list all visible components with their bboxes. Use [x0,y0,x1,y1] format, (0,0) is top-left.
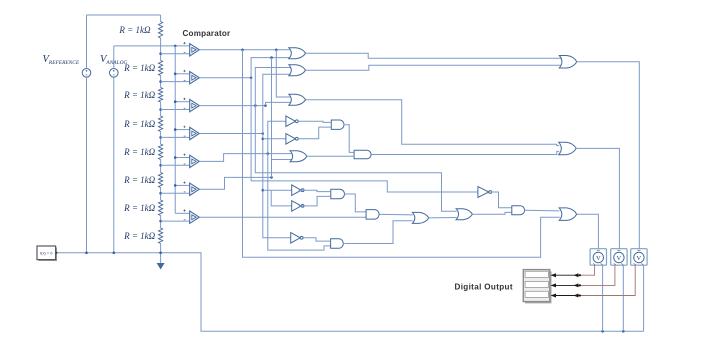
wire rail C [255,68,456,212]
node ladder tap [159,52,162,55]
wire [160,244,162,253]
wire Vplus rail [174,46,176,213]
or gate OR1 [289,48,306,59]
svg-text:R = 1kΩ: R = 1kΩ [123,175,156,185]
voltmeter XMM1 [590,249,606,266]
wire rail F [268,121,331,250]
and gate AND3 [331,189,345,199]
wire [161,53,190,55]
voltage source VANALOG [110,69,119,78]
wire arrow connector [552,274,581,276]
node [262,132,265,135]
node [174,128,177,131]
wire brown b1 [581,265,615,285]
wire [271,190,292,206]
node [622,330,625,333]
wire OR5 out [429,217,457,219]
block fx0 shadow [38,247,57,261]
wire comp1 out [199,49,289,51]
node [159,252,162,255]
or gate OR6 [456,209,472,220]
display cell 1 [525,271,548,277]
node [254,104,257,107]
inverter INV6 [478,187,489,198]
inverter INV4 [292,201,302,212]
wire [161,109,190,111]
wire [160,253,162,263]
and gate AND1 [331,120,344,129]
wire [175,184,190,186]
node [267,152,270,155]
wire rail B [251,58,478,192]
wire [113,46,115,69]
block fx0 [37,246,56,260]
node [275,49,278,52]
wire AND3 out [344,194,366,212]
node [270,176,273,179]
wire [299,121,332,122]
wire comp6 out [199,177,271,189]
wire brown b2 [581,265,595,275]
wire [643,265,645,331]
wire [307,155,354,157]
node [264,104,267,107]
wire [175,73,190,75]
wire [160,160,162,173]
op-amp comparator U2 [190,72,200,84]
wire ground bus [56,253,644,331]
wire [175,101,190,103]
or gate OR4 [290,151,307,162]
and gate AND6 [512,206,525,215]
svg-text:Digital Output: Digital Output [455,283,513,292]
wire [161,220,190,222]
svg-text:R = 1kΩ: R = 1kΩ [123,203,156,213]
wire [175,129,190,131]
or gate OR3 [289,94,306,105]
wire [345,125,354,153]
svg-text:VREFERENCE: VREFERENCE [43,54,80,66]
resistor R4 [159,116,163,132]
wire comp5 out [199,154,292,162]
resistor R8 [159,228,163,244]
resistor R3 [159,88,163,103]
svg-text:Comparator: Comparator [183,29,232,38]
wire rail H [276,50,290,97]
and gate AND4 [366,210,379,220]
wire rail E [266,102,291,105]
inverter INV5 [291,233,301,244]
wire [175,212,190,214]
node [85,252,88,255]
and gate AND5 [331,239,344,248]
resistor R1 [159,22,163,39]
svg-text:R = 1kΩ: R = 1kΩ [123,147,156,157]
resistor R7 [159,200,163,216]
wire rail G [271,58,273,178]
node [113,252,116,255]
wire OR8 out [576,148,619,248]
wire [160,76,162,88]
voltmeter XMM3 [631,249,647,266]
svg-text:V: V [637,255,642,262]
node [174,156,177,159]
op-amp comparator U5 [190,155,200,167]
node ladder tap [159,136,162,139]
wire [160,15,162,22]
node ladder tap [159,80,162,83]
node [174,73,177,76]
svg-text:R = 1kΩ: R = 1kΩ [118,25,151,35]
svg-text:R = 1kΩ: R = 1kΩ [123,231,156,241]
node [270,56,273,59]
resistor R6 [159,173,163,188]
block display shadow [525,271,552,303]
svg-text:V: V [596,255,601,262]
wire comp4 out [199,133,262,135]
wire [304,238,331,241]
wire [602,265,604,331]
node [262,138,265,141]
wire [263,189,292,191]
node [174,184,177,187]
display cell 2 [525,281,548,287]
svg-text:f(x) = 0: f(x) = 0 [40,251,53,256]
wire [161,81,190,83]
wire OR7 out [577,62,640,249]
wire AND2 out [371,151,559,154]
svg-text:R = 1kΩ: R = 1kΩ [123,63,156,73]
wire AND4 out [380,213,413,216]
svg-text:R = 1kΩ: R = 1kΩ [123,119,156,129]
inverter INV3 [292,185,302,196]
node [174,100,177,103]
voltmeter XMM2 [611,249,627,266]
wire AND5 out [344,221,413,244]
wire rail A [243,50,560,257]
or gate OR8 [559,142,577,155]
wire [114,45,190,47]
resistor R5 [159,144,163,160]
wire [86,77,88,253]
wire OR3 out [306,100,560,146]
svg-text:R = 1kΩ: R = 1kΩ [123,90,156,100]
node [250,76,253,79]
op-amp comparator U3 [190,99,200,111]
wire [272,159,293,161]
wire [87,14,161,16]
node ladder tap [159,108,162,111]
inverter INV1 [286,116,296,127]
wire [113,77,115,253]
wire comp3 out [199,105,265,107]
wire [299,127,332,139]
or gate OR9 [559,208,577,221]
wire brown b0 [581,265,635,295]
wire [299,190,331,191]
op-amp comparator U7 [190,211,200,223]
wire [160,188,162,201]
wire AND6 out [525,209,560,212]
wire [86,15,88,69]
wire [175,157,190,159]
node Vplus rail junction [174,45,177,48]
wire INV6 out [491,192,512,208]
display cell 3 [525,291,548,297]
wire [160,132,162,145]
wire [263,138,286,140]
wire arrow connector [552,284,581,286]
wire [160,216,162,229]
wire OR1 out [306,53,562,58]
wire [299,196,331,206]
wire [161,192,190,194]
wire [160,38,162,61]
or gate OR7 [559,56,577,69]
wire OR2 out [306,65,562,70]
node [241,49,244,52]
voltage source VREFERENCE [82,69,91,78]
node ladder tap [159,164,162,167]
or gate OR5 [412,212,428,223]
wire [622,265,624,331]
inverter INV2 [286,134,296,145]
node [601,330,604,333]
resistor R2 [159,61,163,76]
node ladder tap [159,192,162,195]
svg-text:V: V [617,255,622,262]
wire arrow connector [552,295,581,297]
wire OR9 out [577,214,599,249]
wire [161,164,190,166]
op-amp comparator U1 [190,44,200,56]
wire rail D [263,74,292,238]
op-amp comparator U4 [190,127,200,139]
op-amp comparator U6 [190,183,200,195]
block display frame [523,270,550,302]
node ladder tap [159,220,162,223]
wire [161,136,190,138]
and gate AND2 [354,150,371,159]
wire comp7 out [199,216,366,218]
node [262,189,265,192]
wire comp2 out [199,77,252,79]
ground [157,263,165,270]
wire OR6 out [472,212,512,214]
or gate OR2 [289,65,306,76]
wire [160,102,162,116]
